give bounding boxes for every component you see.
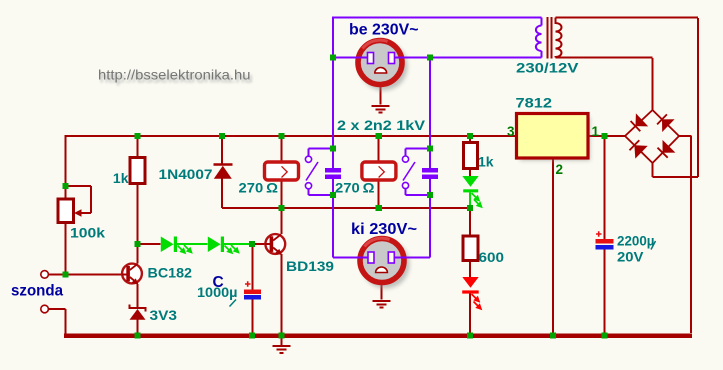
- svg-text:http://bsselektronika.hu: http://bsselektronika.hu: [98, 67, 251, 83]
- svg-text:3: 3: [507, 124, 515, 139]
- svg-text:ki 230V~: ki 230V~: [351, 221, 417, 238]
- svg-text:3V3: 3V3: [150, 307, 178, 323]
- svg-text:szonda: szonda: [11, 283, 63, 300]
- svg-text:2: 2: [556, 162, 564, 177]
- svg-text:1k: 1k: [478, 154, 494, 170]
- svg-text:270 Ω: 270 Ω: [239, 180, 279, 196]
- svg-text:270 Ω: 270 Ω: [335, 180, 375, 196]
- svg-text:C: C: [213, 274, 224, 291]
- svg-text:BD139: BD139: [286, 258, 334, 274]
- svg-text:2 x 2n2 1kV: 2 x 2n2 1kV: [337, 117, 426, 133]
- svg-text:be 230V~: be 230V~: [349, 22, 419, 39]
- svg-text:20V: 20V: [617, 249, 644, 265]
- svg-text:230/12V: 230/12V: [516, 60, 579, 76]
- svg-text:1N4007: 1N4007: [159, 166, 213, 182]
- svg-text:7812: 7812: [516, 95, 553, 111]
- svg-text:1k: 1k: [113, 170, 129, 186]
- svg-text:100k: 100k: [70, 225, 105, 241]
- svg-text:600: 600: [479, 249, 505, 265]
- svg-text:2200µ: 2200µ: [617, 233, 655, 249]
- svg-text:BC182: BC182: [148, 265, 193, 281]
- svg-text:1: 1: [592, 124, 600, 139]
